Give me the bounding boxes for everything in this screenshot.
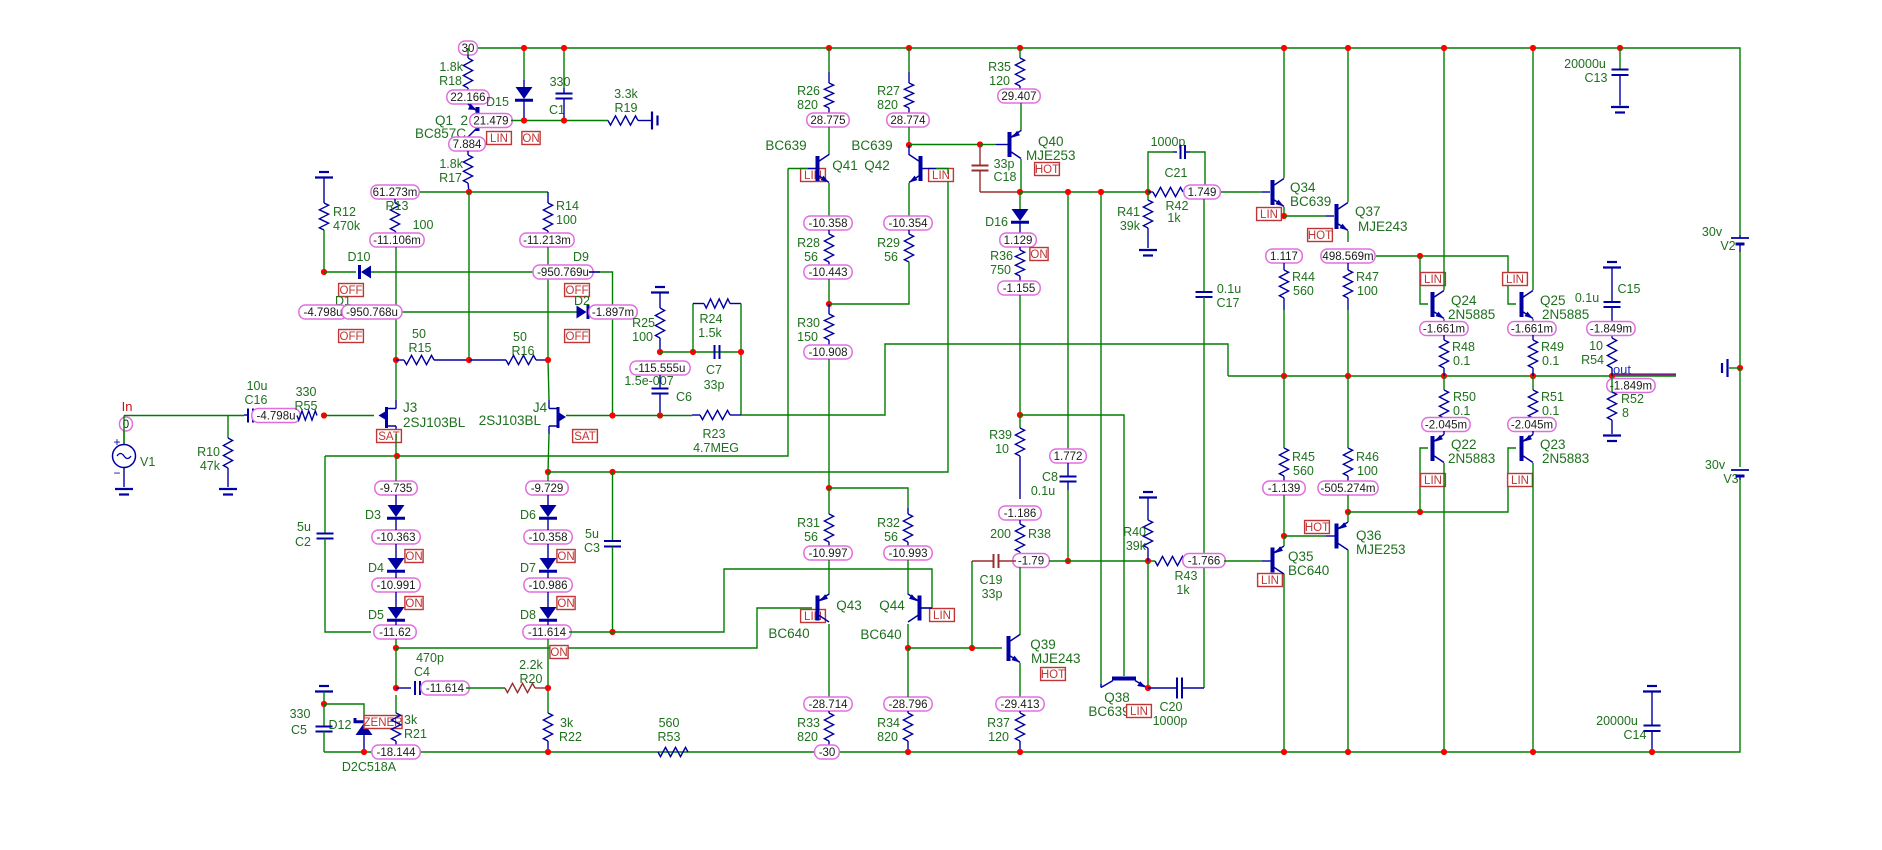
- svg-text:D9: D9: [573, 250, 589, 264]
- resistor R30 150: [828, 304, 830, 314]
- svg-text:20000u: 20000u: [1564, 57, 1606, 71]
- node box -10.358 Q41: [804, 216, 852, 230]
- out net highlight: [1613, 373, 1676, 375]
- node box -1.897m: [589, 305, 637, 319]
- svg-text:LIN: LIN: [490, 133, 508, 145]
- node box -115.555u: [630, 361, 690, 375]
- junction J4 gate x613: [609, 412, 615, 418]
- LIN box Q22: [1421, 474, 1446, 487]
- svg-text:R43: R43: [1175, 569, 1198, 583]
- ground above C14: [1647, 685, 1657, 687]
- wire Q36 base: [1284, 535, 1326, 537]
- svg-text:R23: R23: [703, 427, 726, 441]
- wire J4 source: [548, 434, 549, 472]
- resistor R13 100: [394, 199, 396, 203]
- node box -950.769u: [533, 265, 593, 279]
- resistor R47 100: [1347, 263, 1349, 270]
- resistor R35 120: [1019, 48, 1021, 58]
- ground below C13: [1611, 106, 1629, 108]
- HOT box Q39: [1041, 668, 1066, 681]
- LIN box Q43: [801, 610, 826, 623]
- wire R29 bottom to R30: [829, 262, 909, 304]
- svg-text:-11.62: -11.62: [379, 627, 411, 639]
- junction C19 bottom: [969, 645, 975, 651]
- svg-text:2N5883: 2N5883: [1542, 451, 1589, 466]
- node box -1.849m out: [1607, 379, 1655, 393]
- junction C14 bottom: [1649, 749, 1655, 755]
- svg-text:5u: 5u: [585, 527, 599, 541]
- junction Q42 collector: [906, 142, 912, 148]
- junction R15 left: [393, 357, 399, 363]
- wire R27 to Q42: [908, 127, 910, 145]
- svg-text:3.3k: 3.3k: [614, 87, 638, 101]
- svg-text:R45: R45: [1292, 450, 1315, 464]
- wire Q22 collector down: [1443, 463, 1445, 752]
- node box -1.661m Q25: [1508, 322, 1556, 336]
- svg-text:C14: C14: [1624, 728, 1647, 742]
- wire R18 top to rail: [467, 48, 469, 55]
- svg-text:R28: R28: [797, 236, 820, 250]
- wire Q36 collector down: [1347, 550, 1349, 752]
- svg-text:1k: 1k: [1176, 583, 1190, 597]
- junction out R49: [1530, 373, 1536, 379]
- vertical x1100 Q38 collector line: [1100, 192, 1102, 684]
- wire D1 anode from x324: [324, 311, 338, 313]
- resistor R34 820: [907, 711, 909, 713]
- LIN box Q35: [1258, 574, 1283, 587]
- node box 1.772: [1050, 449, 1087, 463]
- node box -11.614 D8: [523, 625, 571, 639]
- svg-text:D16: D16: [985, 215, 1008, 229]
- svg-text:820: 820: [877, 730, 898, 744]
- svg-text:56: 56: [884, 250, 898, 264]
- svg-text:30v: 30v: [1705, 458, 1726, 472]
- svg-text:C19: C19: [980, 573, 1003, 587]
- wire out rail: [1228, 375, 1676, 377]
- svg-text:1.8k: 1.8k: [439, 157, 463, 171]
- svg-text:R35: R35: [988, 60, 1011, 74]
- resistor R41 39k: [1147, 192, 1149, 200]
- transistor Q25 2N5885: [1520, 292, 1524, 317]
- svg-text:10u: 10u: [247, 379, 268, 393]
- svg-text:29.407: 29.407: [1001, 91, 1036, 103]
- svg-text:R36: R36: [990, 249, 1013, 263]
- wire C19 left drop: [971, 561, 973, 648]
- junction C1: [561, 117, 567, 123]
- svg-text:R40: R40: [1123, 525, 1146, 539]
- resistor R45 560: [1283, 376, 1285, 448]
- svg-text:BC639: BC639: [1290, 194, 1331, 209]
- svg-text:0.1u: 0.1u: [1217, 282, 1241, 296]
- svg-text:J3: J3: [403, 400, 417, 415]
- wire Q34 emitter: [1283, 207, 1285, 216]
- junction R39 top: [1017, 412, 1023, 418]
- wire Q41 base: [788, 168, 808, 170]
- node box -10.443: [804, 265, 852, 279]
- svg-text:820: 820: [797, 98, 818, 112]
- svg-text:-1.79: -1.79: [1018, 556, 1044, 568]
- svg-text:498.569m: 498.569m: [1322, 251, 1373, 263]
- node box -1.186: [999, 506, 1041, 520]
- svg-text:120: 120: [989, 74, 1010, 88]
- junction D8 row x612: [609, 629, 615, 635]
- junction R40 bottom: [1145, 558, 1151, 564]
- svg-text:330: 330: [550, 75, 571, 89]
- svg-text:-28.714: -28.714: [808, 699, 848, 711]
- svg-text:MJE253: MJE253: [1356, 542, 1406, 557]
- svg-text:-9.729: -9.729: [531, 483, 564, 495]
- node box -1.79: [1013, 554, 1050, 568]
- svg-text:50: 50: [412, 327, 426, 341]
- junction V2/V3 midpoint: [1737, 365, 1743, 371]
- svg-text:-1.661m: -1.661m: [1423, 324, 1465, 336]
- svg-text:-9.735: -9.735: [380, 483, 413, 495]
- svg-text:C6: C6: [676, 390, 692, 404]
- node box -9.735: [375, 481, 417, 495]
- junction R31 top: [826, 485, 832, 491]
- svg-text:HOT: HOT: [1305, 522, 1329, 534]
- junction C3 top: [609, 469, 615, 475]
- junction C4 left: [393, 685, 399, 691]
- svg-text:100: 100: [556, 213, 577, 227]
- svg-text:100: 100: [1357, 464, 1378, 478]
- svg-text:R12: R12: [333, 205, 356, 219]
- resistor R48 0.1: [1443, 335, 1445, 340]
- svg-text:7.884: 7.884: [453, 139, 482, 151]
- svg-text:HOT: HOT: [1308, 230, 1332, 242]
- wire R47 bottom segment: [1347, 310, 1349, 376]
- OFF box D1: [339, 330, 364, 343]
- svg-text:Q43: Q43: [836, 598, 862, 613]
- junction Q24 base: [1417, 253, 1423, 259]
- junction rail Q23: [1530, 749, 1536, 755]
- transistor Q38 BC639 rotated: [1112, 677, 1136, 681]
- svg-text:R34: R34: [877, 716, 900, 730]
- svg-text:2SJ103BL: 2SJ103BL: [403, 415, 466, 430]
- svg-text:39k: 39k: [1126, 539, 1147, 553]
- wire V- bottom rail: [324, 480, 1740, 752]
- junction R22 bottom: [545, 749, 551, 755]
- node box 61.273m: [371, 185, 419, 199]
- svg-text:28.775: 28.775: [810, 115, 845, 127]
- wire D1-D2 row: [353, 311, 577, 313]
- transistor Q23 2N5883: [1520, 436, 1524, 461]
- svg-text:Q42: Q42: [864, 158, 890, 173]
- node box 28.775: [807, 113, 849, 127]
- svg-text:100: 100: [632, 330, 653, 344]
- LIN box Q41: [801, 169, 826, 182]
- svg-text:R22: R22: [559, 730, 582, 744]
- svg-text:LIN: LIN: [1130, 706, 1148, 718]
- ON box D3: [405, 550, 423, 563]
- node box 7.884: [449, 137, 486, 151]
- ON box D4: [405, 597, 423, 610]
- node box -11.213m: [520, 233, 574, 247]
- ZENER box D12: [364, 716, 402, 729]
- node box -11.614 C4: [421, 681, 469, 695]
- resistor R46 100: [1347, 376, 1349, 448]
- transistor Q44 BC640: [907, 560, 909, 595]
- svg-text:OFF: OFF: [340, 331, 363, 343]
- wire 61.273m row: [419, 191, 548, 193]
- junction J3 source: [394, 453, 400, 459]
- wire Q25 collector to rail: [1532, 48, 1534, 290]
- resistor R38 200: [1019, 520, 1021, 524]
- wire to D3: [395, 456, 397, 481]
- resistor R37 120: [1019, 711, 1021, 713]
- ground right of R19: [651, 112, 653, 130]
- svg-text:0.1: 0.1: [1542, 354, 1559, 368]
- svg-text:MJE253: MJE253: [1026, 148, 1076, 163]
- svg-text:8: 8: [1622, 406, 1629, 420]
- wire Q42 base: [920, 168, 936, 170]
- svg-text:ON: ON: [405, 551, 422, 563]
- resistor R22 3k: [543, 713, 552, 741]
- svg-text:MJE243: MJE243: [1358, 219, 1408, 234]
- junction rail Q35: [1281, 749, 1287, 755]
- svg-text:R31: R31: [797, 516, 820, 530]
- wire y472 J4 source row: [548, 174, 948, 472]
- svg-text:330: 330: [296, 385, 317, 399]
- svg-text:R52: R52: [1621, 392, 1644, 406]
- OFF box D9: [565, 284, 590, 297]
- wire D8 row to Q44 base: [569, 569, 932, 632]
- junction D12 bottom: [361, 749, 367, 755]
- wire R36 bottom down: [1019, 295, 1021, 415]
- junction R16 right: [545, 357, 551, 363]
- wire R13 bottom down: [395, 247, 397, 360]
- svg-text:C1: C1: [549, 103, 565, 117]
- wire to R10: [227, 416, 229, 439]
- junction Q40 base: [977, 141, 983, 147]
- svg-text:R25: R25: [632, 316, 655, 330]
- svg-text:560: 560: [1293, 464, 1314, 478]
- svg-text:470p: 470p: [416, 651, 444, 665]
- svg-text:BC639: BC639: [1088, 704, 1129, 719]
- junction R24 left: [690, 349, 696, 355]
- resistor R51 0.1: [1532, 376, 1534, 390]
- node box -1.661m Q24: [1420, 322, 1468, 336]
- svg-text:-11.614: -11.614: [528, 627, 567, 639]
- junction Q44 collector: [905, 645, 911, 651]
- ground for R10: [219, 488, 237, 490]
- svg-text:-1.766: -1.766: [1188, 556, 1221, 568]
- svg-text:21.479: 21.479: [473, 116, 508, 128]
- ON box D8: [550, 646, 568, 659]
- svg-text:1.129: 1.129: [1004, 235, 1033, 247]
- transistor Q24 2N5885: [1431, 292, 1435, 317]
- svg-text:C20: C20: [1160, 700, 1183, 714]
- wire y456 J3 source row: [325, 169, 788, 457]
- svg-text:LIN: LIN: [932, 170, 950, 182]
- svg-text:0.1: 0.1: [1453, 404, 1470, 418]
- wire Q39 emitter down: [1019, 663, 1021, 697]
- svg-text:820: 820: [877, 98, 898, 112]
- svg-text:33p: 33p: [994, 157, 1015, 171]
- node box 22.166: [447, 90, 489, 104]
- node box -2.045m Q23: [1508, 418, 1556, 432]
- svg-text:1.772: 1.772: [1054, 451, 1083, 463]
- svg-text:-1.155: -1.155: [1003, 283, 1036, 295]
- wire y512 to Q22/Q23 bases: [1348, 448, 1516, 512]
- junction rail Q25: [1530, 45, 1536, 51]
- wire D5 row to Q43 base: [396, 608, 812, 648]
- svg-text:BC640: BC640: [768, 626, 809, 641]
- svg-text:Q41: Q41: [832, 158, 858, 173]
- svg-text:Q37: Q37: [1355, 204, 1381, 219]
- wire Q42 emitter down: [908, 183, 910, 216]
- junction D5 bottom: [393, 645, 399, 651]
- svg-text:-11.213m: -11.213m: [523, 235, 571, 247]
- wire J3 drain: [395, 360, 397, 400]
- wire input: [123, 431, 125, 444]
- svg-text:LIN: LIN: [1506, 274, 1524, 286]
- wire R46 to y512: [1347, 495, 1349, 512]
- svg-text:-2.045m: -2.045m: [1425, 420, 1467, 432]
- svg-text:R54: R54: [1581, 353, 1604, 367]
- svg-text:V3: V3: [1723, 472, 1738, 486]
- svg-text:56: 56: [884, 530, 898, 544]
- OFF box D10: [339, 284, 364, 297]
- node 30 box: [459, 41, 478, 55]
- wire Q38 collector up: [1100, 684, 1102, 688]
- junction D15: [521, 117, 527, 123]
- svg-text:BC639: BC639: [851, 138, 892, 153]
- svg-text:-10.358: -10.358: [808, 218, 847, 230]
- junction C7 right: [738, 349, 744, 355]
- node box 29.407: [998, 89, 1040, 103]
- wire Q24 collector to rail: [1443, 48, 1445, 290]
- junction R37 bottom: [1017, 749, 1023, 755]
- junction C21/R41/R42: [1145, 189, 1151, 195]
- wire Q44 base: [920, 607, 932, 609]
- svg-text:R48: R48: [1452, 340, 1475, 354]
- wire C17 bottom to C20: [1203, 297, 1205, 688]
- svg-text:10: 10: [995, 442, 1009, 456]
- node box -18.144: [372, 745, 420, 759]
- svg-text:BC639: BC639: [765, 138, 806, 153]
- wire R28 bottom: [828, 279, 830, 304]
- vertical x1068 C8 line: [1067, 192, 1069, 449]
- wire R12 to D10 row: [323, 230, 325, 272]
- resistor R14 100: [547, 192, 549, 203]
- node box -11.106m: [370, 233, 424, 247]
- svg-text:56: 56: [804, 250, 818, 264]
- svg-text:ON: ON: [405, 598, 422, 610]
- transistor Q42 BC639: [908, 145, 910, 155]
- svg-text:-11.614: -11.614: [426, 683, 465, 695]
- ON box D6: [557, 550, 575, 563]
- junction R30 top: [826, 301, 832, 307]
- wire Q24 base drop: [1420, 256, 1428, 304]
- svg-text:BC640: BC640: [860, 627, 901, 642]
- svg-text:-1.849m: -1.849m: [1610, 381, 1652, 393]
- transistor Q36 MJE253: [1335, 524, 1339, 549]
- LIN box Q42: [929, 169, 954, 182]
- svg-text:50: 50: [513, 330, 527, 344]
- svg-text:R26: R26: [797, 84, 820, 98]
- resistor R42 1k: [1153, 187, 1183, 196]
- svg-text:5u: 5u: [297, 520, 311, 534]
- svg-text:R41: R41: [1117, 205, 1140, 219]
- junction Q38 emitter: [1145, 685, 1151, 691]
- node box -2.045m Q22: [1422, 418, 1470, 432]
- LIN box Q44: [930, 609, 955, 622]
- junction Q34 emitter: [1281, 213, 1287, 219]
- svg-text:D5: D5: [368, 608, 384, 622]
- node box -4.798u at D1: [299, 305, 347, 319]
- node box -30: [815, 745, 840, 759]
- node box -11.62: [374, 625, 416, 639]
- svg-text:39k: 39k: [1120, 219, 1141, 233]
- svg-text:C5: C5: [291, 723, 307, 737]
- svg-text:OFF: OFF: [566, 331, 589, 343]
- node box 21.479: [470, 114, 512, 128]
- svg-text:V1: V1: [140, 455, 155, 469]
- svg-text:-10.993: -10.993: [888, 548, 927, 560]
- wire Q44 collector down: [907, 624, 909, 648]
- svg-text:-29.413: -29.413: [1000, 699, 1039, 711]
- LIN box Q34: [1257, 208, 1282, 221]
- svg-text:2N5885: 2N5885: [1542, 307, 1589, 322]
- node box -1.849m C15: [1587, 322, 1635, 336]
- svg-text:150: 150: [797, 330, 818, 344]
- wire Q43 collector down: [828, 624, 830, 697]
- svg-text:20000u: 20000u: [1596, 714, 1638, 728]
- resistor R54 10: [1607, 338, 1616, 368]
- wire R45 to Q35 emitter: [1283, 495, 1285, 536]
- ON box D7: [557, 597, 575, 610]
- svg-text:-10.991: -10.991: [376, 580, 415, 592]
- junction J4 source: [545, 469, 551, 475]
- junction Q35 emitter: [1281, 533, 1287, 539]
- wire Q35 emitter up: [1283, 536, 1285, 546]
- node box 1.129: [1000, 233, 1037, 247]
- junction R17 bottom: [466, 189, 472, 195]
- resistor R23 4.7MEG: [700, 410, 730, 419]
- svg-text:3k: 3k: [560, 716, 574, 730]
- svg-text:C2: C2: [295, 535, 311, 549]
- node 0 box: [120, 417, 133, 431]
- junction out R45: [1281, 373, 1287, 379]
- svg-text:R46: R46: [1356, 450, 1379, 464]
- svg-text:R24: R24: [700, 312, 723, 326]
- node box -10.354: [884, 216, 932, 230]
- wire C3 bottom: [612, 547, 614, 633]
- svg-text:C3: C3: [584, 541, 600, 555]
- wire C2 bottom: [325, 539, 371, 633]
- wire D5 to C4: [395, 648, 397, 688]
- svg-text:R29: R29: [877, 236, 900, 250]
- wire D8 bottom down to R22: [547, 639, 549, 713]
- junction rail C1: [561, 45, 567, 51]
- junction R15/R16: [466, 357, 472, 363]
- svg-text:120: 120: [988, 730, 1009, 744]
- svg-text:2N5885: 2N5885: [1448, 307, 1495, 322]
- svg-text:Q34: Q34: [1290, 180, 1316, 195]
- svg-text:-10.354: -10.354: [888, 218, 928, 230]
- svg-text:D2C518A: D2C518A: [342, 760, 397, 774]
- wire Q40 collector down: [1020, 159, 1022, 192]
- svg-text:+: +: [113, 435, 120, 449]
- capacitor C3 5u: [612, 472, 614, 541]
- node box 498.569m: [1321, 249, 1375, 263]
- svg-text:LIN: LIN: [1424, 475, 1442, 487]
- junction rail Q37: [1345, 45, 1351, 51]
- svg-text:47k: 47k: [200, 459, 221, 473]
- svg-text:LIN: LIN: [1424, 274, 1442, 286]
- node box 1.117: [1266, 249, 1303, 263]
